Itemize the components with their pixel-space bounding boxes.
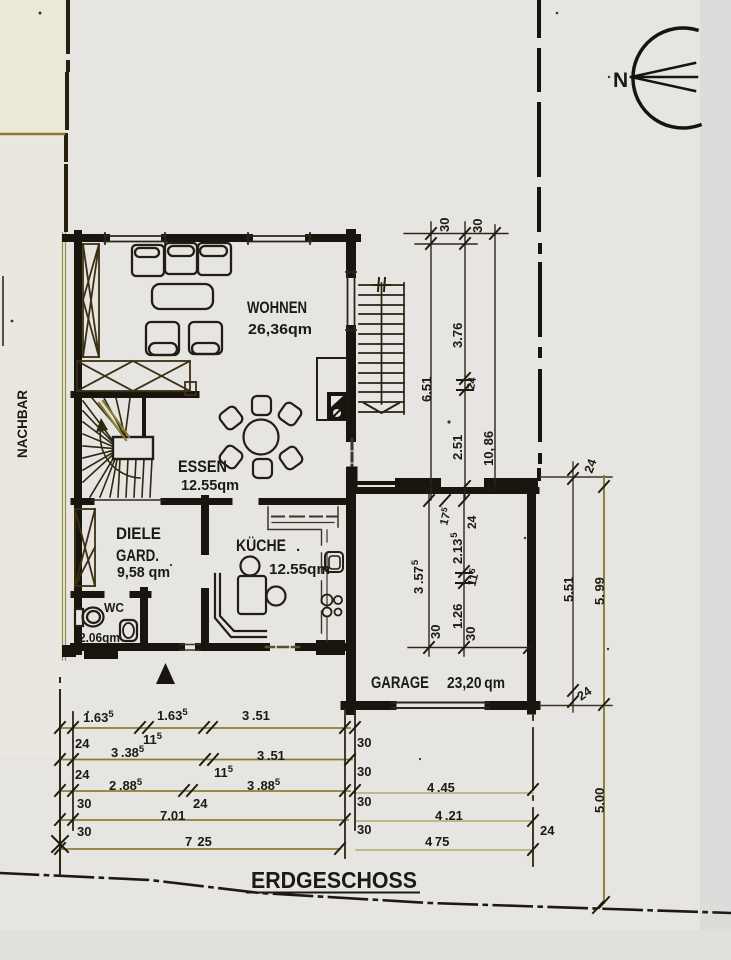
svg-text:30: 30 [437, 218, 452, 232]
kitchen top counter [268, 507, 338, 530]
sofa module 2 [165, 243, 197, 274]
garage top wall [356, 487, 536, 494]
bottom wall segments [74, 643, 181, 651]
svg-text:1.26: 1.26 [450, 604, 465, 629]
fireplace [317, 358, 347, 420]
window right wall wohnen [346, 271, 356, 331]
boundary horizontal line left [0, 133, 64, 136]
svg-text:6.51: 6.51 [419, 377, 434, 402]
armchair 2 [189, 322, 222, 354]
short boundary stub far left [2, 277, 4, 345]
stair/wohnen divider wall [74, 391, 196, 398]
compass rays [631, 63, 697, 91]
svg-text:.: . [296, 538, 300, 555]
dimension labels: bottom rows [75, 707, 555, 849]
stair essen wall stub [142, 398, 146, 438]
stair diagonal olive strokes [99, 401, 129, 440]
svg-text:WOHNEN: WOHNEN [247, 299, 307, 317]
scan speckles [11, 12, 611, 761]
svg-text:5.00: 5.00 [592, 788, 607, 813]
svg-text:WC: WC [104, 601, 124, 615]
spiral stair walk-line arrow [100, 428, 140, 478]
svg-text:GARAGE: GARAGE [371, 674, 429, 692]
entrance door threshold [180, 645, 200, 651]
svg-text:30: 30 [77, 796, 91, 811]
svg-text:9,58 qm: 9,58 qm [117, 565, 170, 581]
svg-text:N: N [613, 69, 628, 92]
svg-text:NACHBAR: NACHBAR [15, 390, 30, 458]
boundary dashed line top-left vertical [66, 0, 68, 230]
right stringer [403, 283, 405, 414]
svg-text:30: 30 [357, 822, 371, 837]
svg-text:2.06qm: 2.06qm [79, 630, 120, 645]
svg-text:GARD.: GARD. [116, 547, 159, 565]
svg-text:30: 30 [77, 824, 91, 839]
ticks top chain [426, 228, 500, 492]
top wall segment left [66, 234, 106, 242]
WC outer step [62, 645, 76, 657]
svg-text:30: 30 [357, 794, 371, 809]
interior divider essen/diele/kueche [74, 498, 347, 505]
svg-text:12.55qm: 12.55qm [181, 478, 239, 494]
svg-text:23,20 qm: 23,20 qm [447, 675, 505, 692]
armchair 1 [146, 322, 179, 355]
sofa module 1 [132, 245, 164, 276]
svg-text:ESSEN: ESSEN [178, 458, 227, 476]
property dash-dot line right vertical [539, 0, 540, 479]
svg-text:4 75: 4 75 [425, 834, 449, 849]
svg-text:26,36qm: 26,36qm [248, 322, 312, 338]
window top wall 2 [247, 233, 311, 244]
window top wall 1 [104, 233, 166, 244]
svg-text:4 .45: 4 .45 [427, 780, 455, 795]
kitchen chairs [241, 557, 260, 576]
bottom property boundary dash-dot [0, 873, 731, 913]
sink [325, 552, 343, 572]
top wall segment right [309, 234, 357, 242]
left wall [74, 234, 82, 651]
svg-text:3 .51: 3 .51 [242, 708, 270, 723]
svg-text:DIELE: DIELE [116, 525, 161, 543]
wardrobe closet left (X-hatched) [83, 244, 99, 357]
ticks bottom chains [52, 722, 603, 913]
svg-text:KÜCHE: KÜCHE [236, 536, 286, 555]
kitchen right counter [322, 530, 344, 642]
entrance marker triangle [156, 663, 175, 684]
svg-text:24: 24 [75, 736, 90, 751]
svg-text:3 .51: 3 .51 [257, 748, 285, 763]
svg-text:ERDGESCHOSS: ERDGESCHOSS [251, 867, 417, 893]
gallery band (X-hatched) [77, 361, 196, 395]
stair down arrow [364, 403, 399, 413]
bottom wall jog block [316, 640, 345, 655]
vertical chain lines bottom [60, 678, 533, 876]
door right wall essen (dashed) [351, 439, 354, 471]
dimension labels: rotated (vertical) [410, 218, 607, 813]
svg-text:7.01: 7.01 [160, 808, 185, 823]
bottom window threshold [266, 646, 299, 649]
svg-text:30: 30 [428, 625, 443, 639]
boundary line along left wall [63, 233, 66, 660]
opening line under stair [91, 499, 164, 501]
svg-text:7 25: 7 25 [185, 834, 212, 849]
wc right wall [140, 591, 148, 647]
svg-text:5.51: 5.51 [561, 577, 576, 602]
burners [322, 595, 333, 606]
garage right wall [527, 487, 536, 710]
sofa module 3 [198, 243, 231, 275]
toilet [75, 609, 83, 626]
essen bottom-right connector wall [352, 472, 396, 488]
kitchen table [238, 576, 266, 614]
spiral stair center box [113, 437, 153, 459]
svg-text:30: 30 [470, 219, 485, 233]
svg-text:30: 30 [463, 627, 478, 641]
diele/kueche divider wall [201, 499, 209, 646]
svg-text:3.76: 3.76 [450, 323, 465, 348]
svg-text:30: 30 [357, 764, 371, 779]
garage door lines [392, 703, 489, 709]
garage top piers [395, 478, 441, 488]
kitchen bench [215, 574, 266, 637]
wash basin [120, 620, 137, 641]
svg-text:24: 24 [75, 767, 90, 782]
coffee table [152, 284, 213, 309]
svg-text:24: 24 [540, 823, 555, 838]
svg-text:2.51: 2.51 [450, 435, 465, 460]
top wall segment mid [165, 234, 249, 242]
garage bottom wall segments [345, 701, 536, 710]
svg-text:12.55qm: 12.55qm [269, 562, 330, 578]
wc top wall [74, 591, 148, 598]
house right wall / garage left wall [346, 234, 356, 710]
compass arc [633, 28, 700, 128]
center line [381, 283, 383, 404]
svg-text:30: 30 [357, 735, 371, 750]
svg-text:4 .21: 4 .21 [435, 808, 463, 823]
svg-text:24: 24 [193, 796, 208, 811]
svg-text:24: 24 [465, 515, 479, 529]
svg-text:10, 86: 10, 86 [481, 431, 496, 466]
stair top break symbol [373, 278, 390, 291]
svg-text:5. 99: 5. 99 [592, 577, 607, 605]
